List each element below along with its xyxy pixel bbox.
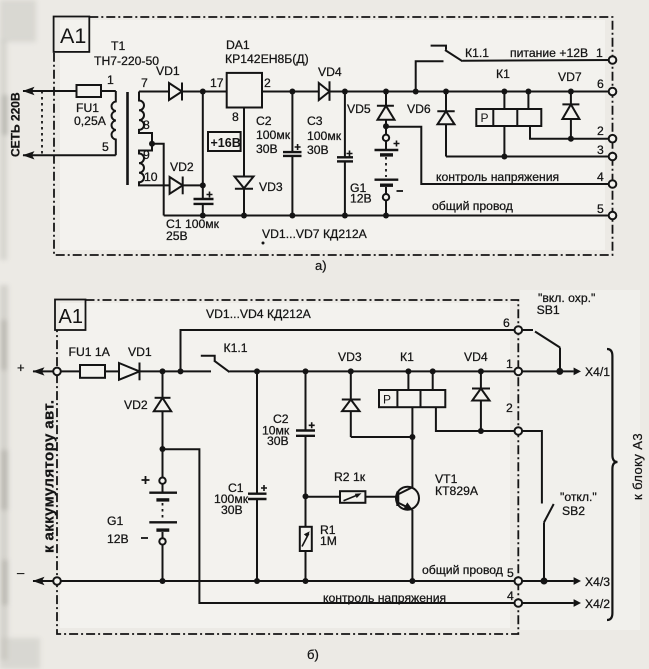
svg-text:5: 5 — [597, 202, 604, 216]
contact K1.1 (b) — [201, 356, 519, 372]
wire relay riser 1 — [503, 92, 505, 110]
wire X4/3 arrow — [522, 580, 574, 582]
ground rail bottom (schematic a) — [164, 215, 613, 217]
svg-text:"откл.": "откл." — [560, 490, 597, 504]
svg-text:0,25А: 0,25А — [74, 114, 107, 128]
svg-text:2: 2 — [264, 76, 271, 90]
diode VD2 — [170, 177, 203, 195]
node C2 top — [289, 89, 295, 95]
svg-text:100мк: 100мк — [256, 128, 291, 142]
svg-text:С2: С2 — [256, 114, 272, 128]
diode VD6 — [437, 92, 454, 157]
node raw DC — [200, 89, 206, 95]
node relay riser 2 (b) — [430, 368, 436, 374]
svg-text:К1: К1 — [400, 350, 414, 364]
node C1 top (b) — [254, 368, 260, 374]
svg-text:1: 1 — [596, 46, 603, 60]
capacitor C1 (b) — [248, 371, 267, 581]
transformer T1 primary winding — [112, 91, 116, 155]
node G1 ground (b) — [160, 578, 166, 584]
svg-text:12В: 12В — [107, 532, 129, 546]
node VD2 anode / battery + — [160, 446, 166, 452]
svg-text:б): б) — [307, 647, 319, 662]
fuse FU1 (b) — [80, 365, 105, 378]
wire riser to terminal 6 (b) — [181, 330, 519, 371]
node C1 ground (b) — [254, 578, 260, 584]
svg-text:4: 4 — [597, 170, 604, 184]
terminal - (left) — [53, 577, 61, 585]
wire battery+ to kontrol line — [163, 449, 519, 603]
battery G1 (b) — [141, 449, 177, 581]
text labels schematic a — [9, 38, 605, 273]
terminal + (left) — [53, 368, 61, 376]
svg-text:6: 6 — [503, 316, 510, 330]
svg-text:общий провод: общий провод — [432, 199, 513, 213]
node C3 ground — [342, 213, 348, 219]
svg-text:Р: Р — [383, 393, 391, 407]
svg-text:Х4/1: Х4/1 — [585, 365, 610, 379]
+16V callout box — [208, 132, 241, 151]
wire VD1 to DA1 — [182, 91, 227, 93]
svg-text:VD1...VD7 КД212А: VD1...VD7 КД212А — [262, 227, 368, 241]
node SB1 / X4-1 — [556, 368, 563, 375]
wire DA1 pin8 down — [243, 108, 245, 177]
svg-text:25В: 25В — [166, 229, 188, 243]
brace k bloku A3 — [607, 349, 618, 620]
svg-text:1: 1 — [107, 73, 114, 87]
module label box A1 (b) — [55, 300, 86, 331]
diode VD4 — [319, 81, 330, 101]
wire terminal 2 to SB2 — [522, 431, 542, 504]
text labels schematic b — [17, 291, 645, 662]
regulator DA1 box — [227, 73, 262, 108]
terminal 5 (b) — [515, 577, 523, 585]
svg-text:а): а) — [315, 258, 327, 273]
wire relay pin to terminal 3 line — [503, 126, 505, 157]
svg-text:30В: 30В — [267, 434, 289, 448]
diode VD7 — [562, 92, 579, 139]
svg-text:питание +12В: питание +12В — [510, 46, 588, 60]
svg-text:+: + — [17, 360, 25, 375]
wire VD4 anode to terminal 2 (b) — [481, 430, 518, 432]
mains cable dotted line — [41, 91, 43, 155]
switch SB1 — [522, 330, 560, 371]
node C3 top — [342, 89, 348, 95]
resistor R1 — [300, 496, 312, 581]
diode VD5 — [377, 92, 395, 127]
svg-text:VD1: VD1 — [128, 345, 152, 359]
svg-text:R2 1к: R2 1к — [334, 470, 366, 484]
terminal 4 (b) — [515, 599, 523, 607]
capacitor C1 — [194, 185, 214, 215]
svg-text:А1: А1 — [60, 24, 86, 48]
terminal 6 — [609, 88, 617, 96]
svg-text:VD1...VD4 КД212А: VD1...VD4 КД212А — [206, 307, 312, 321]
terminal 1 (b) — [515, 368, 523, 376]
svg-text:30В: 30В — [256, 142, 278, 156]
node VD3 / collector / relay — [409, 434, 415, 440]
svg-text:VD7: VD7 — [558, 70, 582, 84]
svg-text:к аккумулятору авт.: к аккумулятору авт. — [41, 400, 58, 553]
svg-text:10: 10 — [144, 170, 158, 184]
node SB2 / X4-3 — [541, 578, 548, 585]
relay K1 coil (b) — [379, 390, 445, 407]
node VD7 top — [568, 89, 574, 95]
node VD5 top — [383, 89, 389, 95]
resistor R2 — [340, 491, 398, 503]
svg-text:СЕТЬ 220В: СЕТЬ 220В — [9, 92, 23, 157]
svg-text:2: 2 — [506, 401, 513, 415]
node relay riser 1 — [501, 89, 507, 95]
svg-text:1М: 1М — [320, 534, 337, 548]
svg-text:6: 6 — [597, 77, 604, 91]
svg-text:КР142ЕН8Б(Д): КР142ЕН8Б(Д) — [225, 52, 309, 66]
node C2 ground — [289, 213, 295, 219]
wire relay riser 2 (b) — [432, 371, 434, 390]
svg-text:VD3: VD3 — [338, 350, 362, 364]
diode VD3 (b) — [342, 371, 413, 437]
node VD2 branch — [160, 368, 166, 374]
svg-text:30В: 30В — [221, 503, 243, 517]
svg-text:контроль напряжения: контроль напряжения — [436, 170, 559, 184]
transformer T1 secondary winding 7-8 — [139, 92, 152, 144]
terminal 5 — [609, 212, 617, 220]
enclosure border A1 (top schematic) dash-dot — [54, 17, 613, 255]
svg-text:5: 5 — [507, 566, 514, 580]
node VD7 anode — [568, 136, 574, 142]
svg-text:1: 1 — [506, 357, 513, 371]
wire relay pin to terminal 2 line — [530, 126, 571, 139]
diode VD1 (b) — [119, 363, 211, 381]
terminal 3 — [609, 153, 617, 161]
svg-text:VD2: VD2 — [124, 398, 148, 412]
terminal 4 — [609, 180, 617, 188]
node VD2 cathode / C1 — [200, 182, 206, 188]
node VD4 top (b) — [478, 368, 484, 374]
node VD3 top (b) — [348, 368, 354, 374]
svg-text:общий провод: общий провод — [422, 563, 503, 577]
svg-text:С3: С3 — [307, 114, 323, 128]
diode VD3 — [235, 177, 254, 216]
node K1.1 riser — [413, 89, 419, 95]
svg-text:9: 9 — [143, 148, 150, 162]
svg-text:3: 3 — [597, 143, 604, 157]
wire relay riser 2 — [527, 92, 529, 110]
wire X4/1 with arrow — [522, 370, 574, 372]
transformer T1 core — [126, 92, 129, 185]
svg-text:ТН7-220-50: ТН7-220-50 — [94, 54, 159, 68]
svg-text:К1: К1 — [496, 67, 510, 81]
diode VD2 (b) — [154, 371, 171, 449]
node relay riser 2 — [525, 89, 531, 95]
node VD4 anode (b) — [478, 428, 484, 434]
wire X4/2 arrow — [522, 602, 574, 604]
node R1 ground — [303, 578, 309, 584]
svg-text:SB2: SB2 — [562, 504, 585, 518]
svg-text:30В: 30В — [307, 143, 329, 157]
svg-text:+16В: +16В — [211, 136, 241, 150]
diode VD1 — [169, 83, 182, 101]
wire DA1 out to VD4 — [262, 91, 319, 93]
ink speck — [262, 242, 265, 245]
wire fuse to VD1 — [105, 370, 119, 372]
svg-text:К1.1: К1.1 — [224, 341, 248, 355]
svg-text:DA1: DA1 — [226, 38, 250, 52]
enclosure border A1 (bottom schematic) dash-dot — [57, 300, 518, 634]
svg-text:FU1 1А: FU1 1А — [69, 345, 111, 359]
wire center tap to ground rail — [152, 144, 164, 216]
node: center tap junction 8-9 — [149, 141, 155, 147]
wire mains bottom — [23, 154, 116, 156]
svg-text:А1: А1 — [59, 306, 83, 328]
svg-text:VD6: VD6 — [407, 102, 431, 116]
wire relay riser 1 (b) — [407, 371, 409, 390]
diode VD4 (b) — [472, 371, 490, 431]
svg-text:VD3: VD3 — [259, 180, 283, 194]
svg-text:VD5: VD5 — [347, 102, 371, 116]
contact K1.1 (a) — [416, 46, 613, 92]
node G1 ground — [383, 213, 389, 219]
svg-text:–: – — [17, 565, 25, 580]
svg-text:4: 4 — [507, 589, 514, 603]
svg-text:SB1: SB1 — [537, 303, 560, 317]
wire junction to R2 — [306, 496, 341, 498]
svg-text:VD4: VD4 — [318, 65, 342, 79]
svg-text:8: 8 — [143, 118, 150, 132]
svg-text:8: 8 — [232, 110, 239, 124]
node relay riser 1 (b) — [405, 368, 411, 374]
wire relay bottom right pin to VD4 anode — [436, 407, 481, 431]
svg-text:7: 7 — [141, 76, 148, 90]
ground rail (b) — [33, 580, 518, 582]
wire + input — [33, 370, 80, 372]
capacitor C3 — [337, 92, 353, 216]
svg-text:К1.1: К1.1 — [465, 46, 489, 60]
svg-text:100мк: 100мк — [307, 129, 342, 143]
svg-text:5: 5 — [102, 140, 109, 154]
svg-text:Т1: Т1 — [111, 39, 125, 53]
svg-text:Х4/3: Х4/3 — [585, 575, 610, 589]
wire top rail from secondary to VD1 — [139, 91, 169, 93]
wire VD4 to terminal 6 rail — [330, 91, 613, 93]
svg-text:12В: 12В — [350, 192, 372, 206]
svg-text:КТ829А: КТ829А — [435, 484, 479, 498]
svg-text:VD2: VD2 — [170, 160, 194, 174]
node SB1 branch — [178, 368, 184, 374]
switch SB2 — [544, 504, 554, 581]
terminal 2 (b) — [515, 427, 523, 435]
wire VD6 to terminal 3 — [446, 156, 613, 158]
transformer T1 secondary winding 9-10 — [139, 144, 170, 186]
svg-text:FU1: FU1 — [76, 101, 99, 115]
fuse FU1 — [77, 85, 116, 97]
node VD6 top — [443, 89, 449, 95]
node R1/R2 junction — [303, 493, 309, 499]
wire relay bottom pin to node — [411, 407, 413, 437]
module label box A1 — [54, 17, 90, 52]
node VD5 anode / battery — [383, 123, 389, 129]
svg-text:VD1: VD1 — [156, 64, 180, 78]
capacitor C2 — [283, 92, 302, 216]
svg-text:17: 17 — [210, 76, 224, 90]
capacitor C2 (b) — [296, 371, 315, 496]
wire riser raw DC down to VD2 cathode — [202, 92, 204, 186]
battery G1 (a) — [375, 126, 404, 215]
svg-text:к блоку А3: к блоку А3 — [630, 433, 645, 500]
node VD3 ground — [241, 213, 247, 219]
svg-text:Р: Р — [481, 111, 489, 125]
relay K1 coil (a) — [476, 109, 541, 126]
node VT1 emitter ground — [409, 578, 415, 584]
node C1 ground — [200, 213, 206, 219]
terminal 2 — [609, 135, 617, 143]
node C2 top (b) — [303, 368, 309, 374]
node relay / terminal 3 — [501, 154, 507, 160]
wire to voltage monitor (kontrol) — [386, 127, 613, 184]
wire to terminal 2 — [571, 138, 613, 140]
terminal 6 (b) — [515, 326, 523, 334]
wire mains top — [23, 90, 77, 92]
svg-text:G1: G1 — [107, 514, 123, 528]
svg-text:Х4/2: Х4/2 — [585, 597, 610, 611]
svg-text:контроль напряжения: контроль напряжения — [323, 591, 446, 605]
terminal 1 — [609, 56, 617, 64]
transistor VT1 — [396, 437, 419, 581]
svg-text:2: 2 — [597, 124, 604, 138]
svg-text:VD4: VD4 — [464, 350, 488, 364]
